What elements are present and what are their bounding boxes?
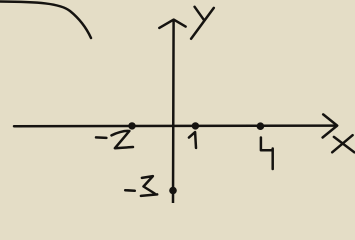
label -2: [96, 131, 133, 148]
label 1: [189, 132, 196, 148]
point (-2,0): [128, 122, 135, 129]
point (4,0): [257, 122, 265, 130]
y-axis arrowhead: [159, 20, 185, 28]
point (1,0): [192, 122, 199, 129]
point (0,-3): [169, 187, 177, 195]
x-axis arrowhead: [323, 114, 338, 137]
x-axis: [14, 124, 336, 127]
y-axis: [172, 21, 175, 203]
label 4: [261, 138, 273, 170]
curve (top-left function sketch): [0, 2, 91, 39]
label x: [332, 135, 354, 152]
label y: [191, 7, 214, 39]
label -3: [125, 176, 157, 196]
